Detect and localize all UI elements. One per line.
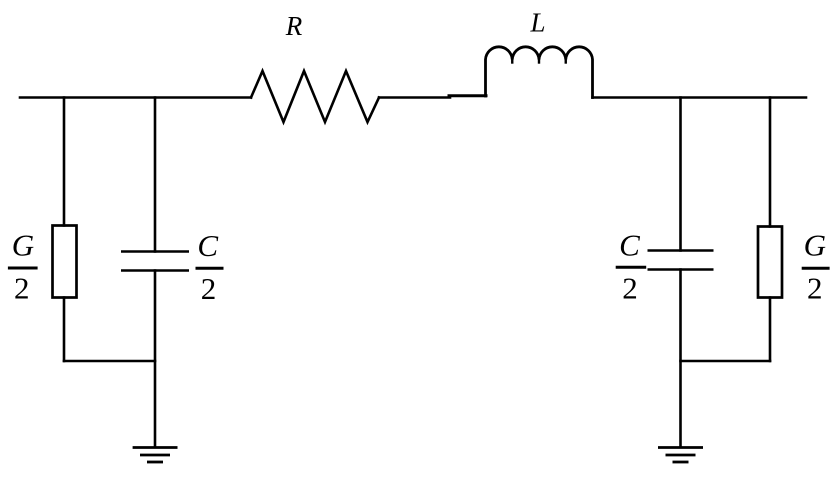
svg-text:C: C bbox=[197, 228, 218, 263]
svg-text:2: 2 bbox=[201, 271, 217, 306]
svg-text:C: C bbox=[619, 228, 640, 263]
svg-text:2: 2 bbox=[807, 270, 823, 305]
svg-text:L: L bbox=[529, 8, 545, 38]
svg-text:G: G bbox=[804, 228, 826, 263]
svg-text:2: 2 bbox=[622, 270, 638, 305]
svg-text:G: G bbox=[12, 228, 34, 263]
svg-text:2: 2 bbox=[14, 270, 30, 305]
svg-text:R: R bbox=[285, 11, 303, 41]
